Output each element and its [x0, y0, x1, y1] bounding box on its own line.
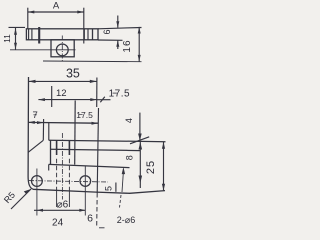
svg-text:5: 5 [104, 186, 114, 191]
svg-text:17.5: 17.5 [76, 110, 93, 120]
svg-text:35: 35 [66, 67, 80, 81]
svg-text:24: 24 [52, 217, 64, 228]
svg-text:2-⌀6: 2-⌀6 [117, 215, 135, 225]
svg-text:6: 6 [102, 29, 112, 34]
svg-text:12: 12 [56, 88, 67, 99]
svg-text:R5: R5 [2, 190, 17, 205]
svg-text:17.5: 17.5 [109, 88, 130, 99]
svg-text:6: 6 [87, 213, 93, 225]
svg-text:16: 16 [122, 39, 133, 52]
svg-text:⌀6: ⌀6 [57, 199, 69, 210]
svg-text:8: 8 [125, 155, 135, 160]
svg-text:25: 25 [145, 160, 157, 174]
svg-text:A: A [53, 1, 60, 12]
svg-text:7: 7 [33, 110, 38, 121]
svg-text:4: 4 [124, 118, 134, 123]
svg-text:11: 11 [2, 34, 12, 43]
